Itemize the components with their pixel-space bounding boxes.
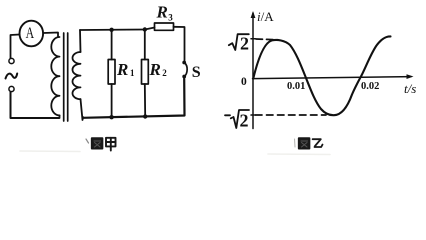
wire secondary left edge bottom bbox=[81, 99, 84, 120]
resistor R3 bbox=[155, 23, 174, 30]
wire R2 branch bottom bbox=[144, 84, 146, 117]
svg-text:2: 2 bbox=[162, 68, 167, 78]
junction (R2 bottom) bbox=[143, 114, 147, 118]
wire R1 branch bottom bbox=[111, 84, 113, 117]
wire switch to bottom right corner bbox=[83, 79, 185, 118]
svg-text:i/A: i/A bbox=[257, 9, 274, 24]
svg-text:t/s: t/s bbox=[404, 81, 416, 96]
scan artifact smudges bbox=[20, 150, 80, 153]
axes of graph bbox=[252, 13, 254, 129]
svg-text:S: S bbox=[192, 64, 201, 81]
svg-text:R: R bbox=[116, 60, 128, 79]
wire R2 branch top bbox=[144, 30, 146, 60]
scan artifact tick bbox=[86, 139, 89, 143]
terminal (bottom input) bbox=[9, 86, 14, 91]
amplitude label sqrt2 bbox=[229, 34, 249, 50]
transformer primary coil bbox=[51, 37, 59, 115]
wire secondary top bbox=[80, 29, 145, 32]
svg-text:0.02: 0.02 bbox=[361, 81, 379, 92]
transformer secondary coil bbox=[72, 52, 80, 99]
svg-text:0.01: 0.01 bbox=[287, 81, 305, 92]
wire left vertical bottom bbox=[11, 92, 60, 118]
wire R1 branch top bbox=[111, 30, 113, 60]
svg-text:2: 2 bbox=[240, 34, 249, 54]
sine curve bbox=[253, 36, 390, 115]
wire primary coil bottom bbox=[59, 115, 61, 118]
caption 图乙 bbox=[299, 138, 323, 148]
svg-text:A: A bbox=[26, 25, 35, 42]
terminal (top input) bbox=[9, 58, 14, 63]
wire R3 to top right corner bbox=[174, 27, 185, 61]
switch S bbox=[182, 61, 186, 65]
wire ammeter to primary coil bbox=[43, 33, 58, 38]
svg-text:3: 3 bbox=[168, 13, 173, 23]
dashed line at -sqrt2 bbox=[256, 114, 327, 116]
tick at sqrt2 level bbox=[251, 38, 256, 40]
resistor R2 bbox=[142, 60, 149, 85]
svg-text:1: 1 bbox=[130, 68, 135, 78]
junction (R1 top) bbox=[109, 28, 113, 32]
AC source ~ bbox=[6, 74, 18, 79]
wire left vertical top (source to ammeter corner) bbox=[11, 35, 20, 59]
wire secondary left edge top bbox=[79, 30, 82, 52]
svg-text:2: 2 bbox=[240, 111, 249, 131]
wire junction to R3 bbox=[145, 28, 155, 30]
caption 图甲 bbox=[92, 138, 116, 151]
resistor R1 bbox=[108, 60, 115, 85]
amplitude label -sqrt2 bbox=[225, 110, 249, 128]
transformer core bbox=[64, 33, 68, 121]
tick at -sqrt2 level bbox=[251, 114, 256, 116]
junction (R1 bottom) bbox=[109, 115, 113, 119]
dashed line at +sqrt2 bbox=[256, 38, 278, 41]
svg-text:0: 0 bbox=[241, 76, 247, 88]
ammeter A bbox=[20, 21, 44, 47]
junction (R2 top) bbox=[143, 27, 147, 31]
svg-text:R: R bbox=[149, 60, 161, 79]
svg-text:R: R bbox=[156, 3, 168, 22]
